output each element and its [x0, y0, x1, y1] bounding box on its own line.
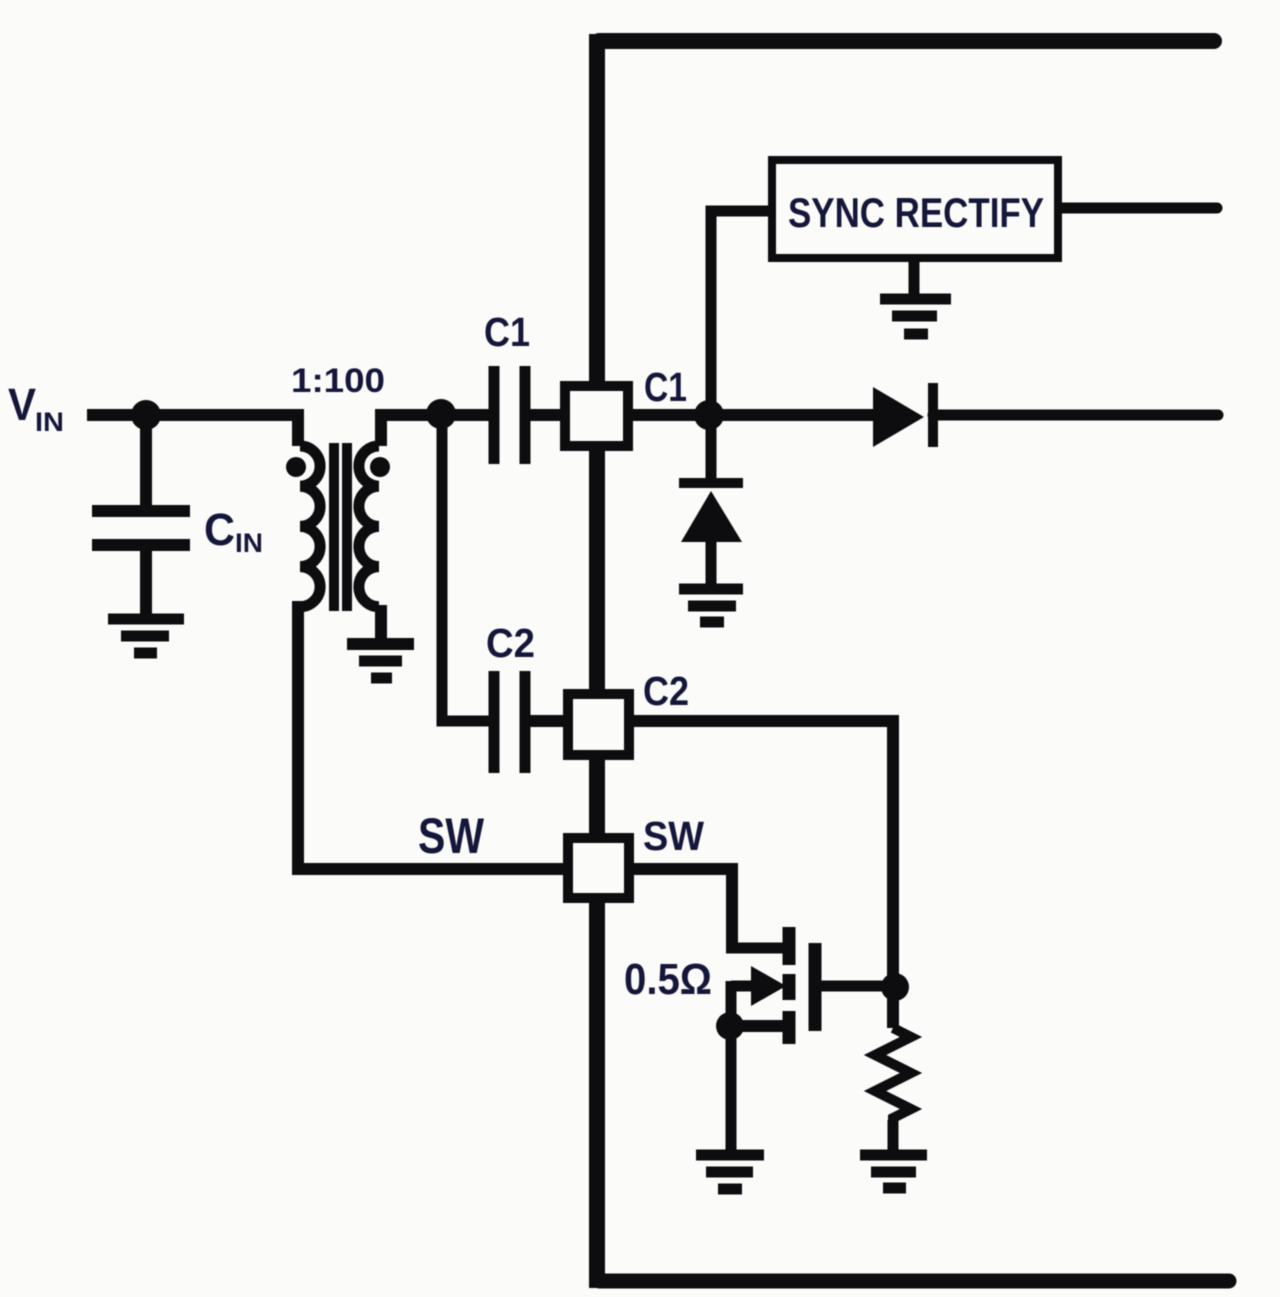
ground (MOSFET source) — [696, 1155, 764, 1189]
wire VIN input — [87, 409, 298, 421]
label C2 (capacitor) — [486, 620, 535, 666]
diode D1 (series output) — [873, 383, 933, 447]
ground (resistor) — [860, 1155, 927, 1188]
ground (CIN) — [108, 619, 184, 653]
svg-text:0.5Ω: 0.5Ω — [624, 955, 712, 1004]
label SW (pin) — [643, 813, 704, 859]
label C1 (pin) — [644, 364, 687, 410]
node source/body junction — [716, 1012, 744, 1040]
label C1 (capacitor) — [484, 309, 530, 355]
transformer T1 primary — [298, 409, 320, 607]
wire C1 pin to output — [628, 409, 873, 421]
svg-text:C: C — [204, 504, 235, 555]
ground (SYNC RECTIFY) — [880, 258, 951, 334]
transformer T1 secondary — [359, 409, 381, 640]
node C1 output junction — [694, 400, 724, 430]
wire C2 pin to mosfet gate net — [629, 721, 893, 987]
capacitor C1 — [494, 366, 525, 464]
svg-text:1:100: 1:100 — [291, 362, 385, 400]
transformer phase dot (secondary) — [370, 457, 390, 477]
transformer core — [334, 443, 347, 611]
wire node up to sync rectify — [711, 211, 768, 415]
IC top edge line — [599, 33, 1214, 49]
wire C2 to pin — [525, 715, 568, 727]
node gate junction — [881, 973, 909, 1001]
svg-text:IN: IN — [35, 407, 64, 437]
resistor R1 — [875, 987, 911, 1150]
box SYNC RECTIFY — [772, 160, 1058, 258]
pin box SW — [568, 838, 629, 898]
label VIN — [8, 379, 64, 437]
node VIN junction — [131, 400, 161, 430]
wire SW pin to mosfet drain — [629, 869, 732, 948]
svg-text:IN: IN — [235, 528, 263, 558]
pin box C2 — [568, 694, 629, 755]
IC left edge bus — [589, 34, 605, 1288]
svg-text:SW: SW — [643, 813, 704, 859]
wire secondary top to node — [375, 409, 440, 421]
ground (diode D2) — [679, 589, 743, 622]
capacitor C2 — [494, 671, 525, 773]
svg-text:V: V — [8, 379, 36, 430]
svg-text:C1: C1 — [644, 364, 687, 410]
transformer phase dot (primary) — [286, 457, 306, 477]
label 1:100 — [291, 362, 385, 400]
wire transformer primary to SW pin — [298, 601, 568, 869]
IC bottom edge line — [599, 1274, 1229, 1289]
svg-text:SYNC RECTIFY: SYNC RECTIFY — [788, 189, 1044, 236]
svg-text:SW: SW — [418, 808, 485, 864]
label SYNC RECTIFY — [788, 189, 1044, 236]
wire node A to C1 — [441, 409, 489, 421]
node A junction (secondary/C1/C2) — [426, 399, 456, 429]
ground (transformer secondary) — [347, 644, 414, 678]
svg-text:C2: C2 — [643, 668, 689, 714]
wire C1 to pin — [525, 409, 565, 421]
label C2 (pin) — [643, 668, 689, 714]
label SW (left) — [418, 808, 485, 864]
wire output right — [933, 410, 1218, 421]
svg-text:C1: C1 — [484, 309, 530, 355]
wire SYNC RECTIFY output — [1062, 203, 1217, 214]
pin box C1 — [565, 386, 628, 446]
label CIN — [204, 504, 263, 558]
label 0.5R — [624, 955, 712, 1004]
diode D2 (clamp to ground) — [679, 415, 743, 586]
transistor Q1 (sense MOSFET) — [726, 927, 897, 1150]
capacitor CIN — [92, 415, 190, 614]
svg-text:C2: C2 — [486, 620, 535, 666]
wire node A down to C2 — [442, 415, 489, 721]
